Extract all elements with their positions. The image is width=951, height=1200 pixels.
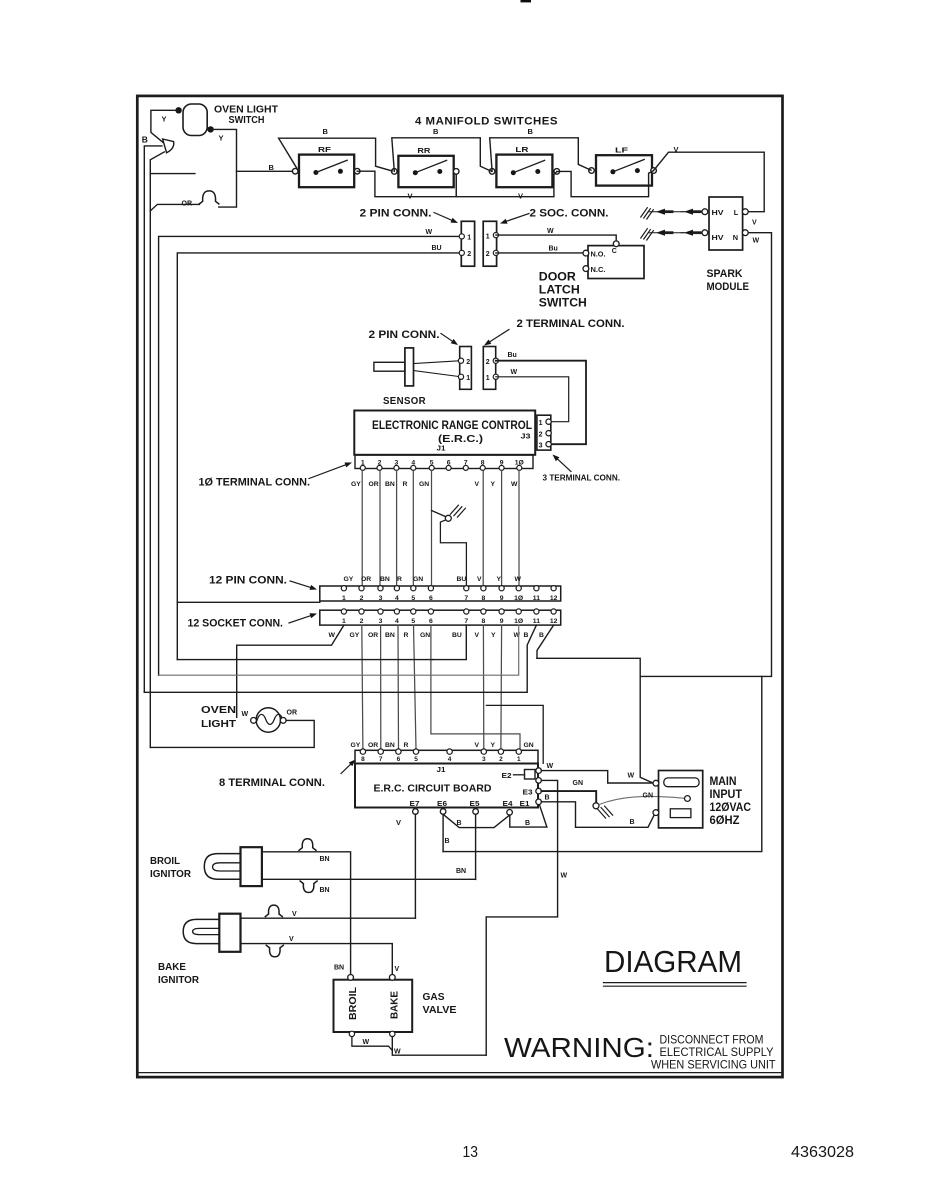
svg-text:1: 1 — [342, 618, 346, 625]
svg-text:8: 8 — [361, 756, 365, 763]
svg-text:9: 9 — [500, 618, 504, 625]
spark electrodes lower — [641, 229, 703, 240]
wire B socket-12 down — [486, 625, 553, 763]
wire BN socket to 8-term — [397, 625, 400, 749]
svg-text:BU: BU — [457, 576, 467, 583]
svg-text:V: V — [396, 818, 401, 827]
svg-text:E5: E5 — [470, 801, 480, 808]
svg-text:W: W — [426, 229, 433, 236]
warning note — [504, 1032, 776, 1072]
svg-text:W: W — [628, 772, 635, 779]
svg-text:GN: GN — [573, 780, 584, 787]
wire W socket-1 to oven light — [237, 625, 344, 717]
svg-text:R: R — [403, 481, 408, 488]
svg-text:E2: E2 — [502, 773, 512, 780]
svg-text:GN: GN — [413, 576, 423, 583]
svg-text:5: 5 — [414, 756, 418, 763]
svg-text:12 PIN CONN.: 12 PIN CONN. — [209, 575, 287, 587]
wire BU socket-7 jog — [177, 625, 466, 660]
svg-text:LIGHT: LIGHT — [201, 718, 237, 730]
wire color labels row1 — [351, 481, 518, 488]
svg-text:B: B — [457, 820, 462, 827]
wire R J1 to 12-pin — [412, 470, 414, 588]
oven light switch — [162, 104, 279, 143]
svg-text:Y: Y — [219, 134, 224, 143]
svg-text:6: 6 — [397, 756, 401, 763]
svg-text:1: 1 — [467, 235, 471, 242]
svg-text:5: 5 — [411, 595, 415, 602]
label 2 PIN CONN (sensor) — [369, 329, 459, 345]
svg-text:W: W — [547, 763, 554, 770]
board right-edge terminals — [503, 778, 542, 808]
svg-text:5: 5 — [411, 618, 415, 625]
svg-text:ELECTRONIC RANGE CONTROL: ELECTRONIC RANGE CONTROL — [372, 420, 532, 432]
svg-text:GY: GY — [350, 632, 360, 639]
svg-text:2: 2 — [486, 359, 490, 366]
svg-text:13: 13 — [463, 1144, 479, 1161]
svg-text:Y: Y — [162, 115, 167, 124]
wire color labels row3 — [329, 632, 545, 639]
svg-text:B: B — [630, 819, 635, 826]
svg-text:V: V — [408, 191, 413, 200]
connector 12 SOCKET CONN — [320, 609, 561, 625]
wire W spark N down right side — [640, 220, 771, 784]
wire W 2-term to J3-1 — [496, 369, 569, 422]
svg-text:V: V — [475, 632, 480, 639]
wire W to 2-pin-conn pin1 — [159, 229, 462, 675]
wire OR J1 to 12-pin — [379, 470, 381, 588]
wire GY J1 to 12-pin — [361, 470, 363, 588]
svg-text:W: W — [561, 873, 568, 880]
svg-text:7: 7 — [379, 756, 383, 763]
boot broil top — [299, 839, 316, 851]
svg-text:2: 2 — [467, 251, 471, 258]
svg-text:OVEN LIGHT: OVEN LIGHT — [214, 104, 278, 115]
wire V link RR-LR — [456, 172, 557, 201]
svg-text:E.R.C. CIRCUIT BOARD: E.R.C. CIRCUIT BOARD — [374, 782, 492, 794]
svg-text:GY: GY — [351, 481, 361, 488]
wire Y J1 to 12-pin — [501, 470, 503, 588]
wire V LF to spark module L — [654, 145, 765, 212]
svg-text:W: W — [329, 632, 336, 639]
svg-text:6: 6 — [429, 595, 433, 602]
svg-text:1: 1 — [486, 233, 490, 240]
svg-text:W: W — [515, 576, 522, 583]
label 2 TERMINAL CONN — [484, 318, 625, 346]
oven light lamp — [201, 704, 297, 732]
svg-text:Y: Y — [497, 576, 502, 583]
connector 2 terminal — [483, 347, 498, 390]
svg-text:HV: HV — [712, 233, 724, 242]
svg-text:Y: Y — [491, 742, 496, 749]
main input terminal block — [628, 771, 752, 828]
svg-text:1: 1 — [517, 756, 521, 763]
svg-text:B: B — [323, 127, 329, 136]
wire Bu soc-conn to door latch N.O. — [496, 246, 583, 253]
svg-text:12 SOCKET CONN.: 12 SOCKET CONN. — [188, 617, 284, 629]
wire OR lamp right loop — [150, 720, 314, 747]
svg-text:12: 12 — [550, 618, 558, 625]
svg-text:C: C — [612, 248, 617, 255]
svg-text:V: V — [674, 145, 679, 154]
svg-text:W: W — [363, 1039, 370, 1046]
svg-text:B: B — [528, 127, 534, 136]
svg-text:W: W — [547, 228, 554, 235]
svg-text:B: B — [539, 632, 544, 639]
svg-text:B: B — [433, 127, 439, 136]
svg-text:3: 3 — [482, 756, 486, 763]
page number — [463, 1144, 479, 1161]
title DIAGRAM — [604, 944, 747, 986]
wire B right side down to h852 — [443, 676, 762, 851]
svg-text:GY: GY — [344, 576, 354, 583]
wire GY socket to 8-term — [362, 625, 363, 749]
svg-text:2 SOC. CONN.: 2 SOC. CONN. — [530, 207, 609, 219]
svg-text:R: R — [404, 632, 409, 639]
svg-text:V: V — [518, 191, 523, 200]
svg-text:B: B — [269, 163, 275, 172]
svg-text:B: B — [524, 632, 529, 639]
svg-text:8 TERMINAL CONN.: 8 TERMINAL CONN. — [219, 777, 325, 789]
svg-text:1: 1 — [342, 595, 346, 602]
wire V bake bottom to gas valve — [241, 936, 393, 977]
svg-text:BAKE: BAKE — [389, 991, 401, 1019]
indicator lamp B — [142, 135, 174, 153]
svg-text:6ØHZ: 6ØHZ — [710, 813, 740, 827]
wire GN socket to 8-term pin8 — [431, 625, 520, 749]
svg-text:BN: BN — [320, 887, 330, 894]
svg-text:DOOR: DOOR — [539, 272, 577, 284]
svg-text:3: 3 — [539, 443, 543, 450]
svg-text:SWITCH: SWITCH — [539, 298, 587, 310]
connector 2 SOC CONN — [483, 207, 608, 266]
svg-text:E4: E4 — [503, 801, 513, 808]
wire B right h658 — [537, 658, 640, 676]
wire stub 12-pin left — [177, 601, 319, 603]
svg-text:MODULE: MODULE — [707, 281, 750, 293]
svg-text:GN: GN — [419, 481, 429, 488]
svg-text:V: V — [292, 911, 297, 918]
svg-text:J1: J1 — [437, 767, 446, 774]
svg-text:1: 1 — [486, 375, 490, 382]
switch RR — [392, 146, 460, 187]
door latch switch — [539, 241, 644, 310]
svg-text:4: 4 — [448, 756, 452, 763]
svg-text:3: 3 — [379, 618, 383, 625]
svg-text:7: 7 — [464, 595, 468, 602]
svg-text:R: R — [397, 576, 402, 583]
svg-text:Y: Y — [491, 481, 496, 488]
svg-text:3: 3 — [379, 595, 383, 602]
svg-text:BN: BN — [385, 742, 395, 749]
svg-text:J3: J3 — [521, 432, 531, 441]
label 4 manifold switches — [415, 116, 558, 128]
wire BU to 2-pin-conn pin2 — [177, 245, 462, 659]
svg-text:VALVE: VALVE — [423, 1004, 457, 1016]
svg-text:BN: BN — [456, 868, 466, 875]
svg-text:R: R — [404, 742, 409, 749]
svg-text:RF: RF — [318, 145, 332, 154]
wire Y socket to 8-term — [500, 625, 503, 749]
svg-text:1Ø: 1Ø — [514, 595, 523, 602]
svg-text:2: 2 — [466, 359, 470, 366]
boot bake bottom — [266, 945, 283, 957]
wire R socket to 8-term — [414, 625, 417, 749]
terminal E2 — [502, 768, 542, 780]
sensor probe — [374, 348, 461, 407]
svg-text:GN: GN — [420, 632, 430, 639]
svg-text:3 TERMINAL CONN.: 3 TERMINAL CONN. — [543, 472, 621, 482]
svg-text:4 MANIFOLD SWITCHES: 4 MANIFOLD SWITCHES — [415, 116, 558, 128]
wire V E7 down to bake igniter — [396, 814, 415, 918]
svg-text:WARNING:: WARNING: — [504, 1032, 654, 1063]
connector 8 TERMINAL CONN — [355, 749, 538, 764]
label 12 socket conn — [188, 613, 318, 629]
svg-text:2 TERMINAL CONN.: 2 TERMINAL CONN. — [517, 318, 625, 330]
doc number — [791, 1144, 854, 1161]
svg-text:OVEN: OVEN — [201, 704, 236, 716]
svg-text:INPUT: INPUT — [710, 787, 743, 801]
label 3 terminal conn — [543, 455, 621, 483]
svg-text:BU: BU — [432, 245, 442, 252]
wire BN broil bottom — [262, 868, 476, 894]
svg-text:BN: BN — [385, 481, 395, 488]
wire Bu 2-term to J3-3 — [496, 352, 586, 444]
svg-text:9: 9 — [500, 595, 504, 602]
svg-text:BROIL: BROIL — [150, 855, 181, 867]
svg-text:OR: OR — [287, 709, 298, 716]
svg-text:OR: OR — [182, 200, 193, 207]
svg-text:B: B — [525, 820, 530, 827]
svg-text:6: 6 — [429, 618, 433, 625]
svg-text:1Ø: 1Ø — [514, 618, 523, 625]
svg-text:J1: J1 — [437, 446, 446, 453]
svg-text:8: 8 — [482, 595, 486, 602]
wire V J1 to 12-pin — [482, 470, 484, 588]
svg-text:HV: HV — [712, 208, 724, 217]
wire BU 12-pin-7 up to ground — [440, 520, 466, 588]
svg-text:N.O.: N.O. — [591, 252, 606, 259]
wire GN E3 to chassis ground — [541, 780, 684, 818]
svg-text:12ØVAC: 12ØVAC — [710, 800, 752, 814]
wire B left vertical (v144) — [144, 146, 162, 692]
svg-text:N: N — [733, 233, 738, 242]
svg-text:W: W — [511, 481, 518, 488]
svg-text:2: 2 — [499, 756, 503, 763]
wire W gas valve returns — [352, 1037, 486, 1056]
wire B hop RF-RR — [279, 127, 393, 171]
svg-text:BU: BU — [452, 632, 462, 639]
svg-text:2: 2 — [360, 595, 364, 602]
wire V bake top to E7 — [241, 911, 416, 918]
wire B E6 down — [443, 814, 449, 851]
wire B hop RR-LR — [392, 127, 491, 172]
label 12 pin conn — [209, 575, 317, 590]
svg-text:1: 1 — [539, 420, 543, 427]
bake ignitor — [158, 914, 241, 986]
gas valve — [334, 965, 457, 1037]
wire GN J1 to 12-pin — [431, 470, 433, 588]
svg-text:GN: GN — [643, 792, 654, 799]
wire B main line to RF — [237, 163, 296, 172]
svg-text:V: V — [475, 481, 480, 488]
electronic range control U2 — [354, 411, 535, 455]
connector 12 PIN CONN — [320, 586, 561, 602]
svg-text:B: B — [545, 794, 550, 801]
svg-text:LR: LR — [515, 145, 529, 154]
svg-text:V: V — [395, 966, 400, 973]
switch LR — [489, 145, 559, 187]
svg-text:11: 11 — [533, 618, 540, 625]
svg-text:BN: BN — [334, 965, 344, 972]
wire BN J1 to 12-pin — [396, 470, 398, 588]
svg-text:E1: E1 — [520, 801, 530, 808]
wire W J1 to 12-pin — [518, 470, 520, 588]
svg-text:N.C.: N.C. — [591, 267, 606, 274]
wire E5 down to broil igniter — [475, 814, 477, 879]
svg-text:GAS: GAS — [423, 991, 445, 1003]
wire OR lamp to bell loop (v151) — [150, 152, 195, 748]
svg-text:4363028: 4363028 — [791, 1144, 854, 1161]
svg-text:E3: E3 — [523, 789, 533, 796]
boot bake top — [265, 905, 282, 917]
svg-text:OR: OR — [361, 576, 371, 583]
connector 2 PIN CONN (door) — [360, 207, 475, 266]
wire W board to gas valve loop — [486, 780, 567, 1055]
svg-text:W: W — [753, 237, 760, 244]
svg-text:Y: Y — [491, 632, 496, 639]
svg-text:DIAGRAM: DIAGRAM — [604, 944, 742, 979]
wire W soc-conn to door latch C — [496, 228, 616, 241]
svg-text:W: W — [511, 369, 518, 376]
svg-text:W: W — [242, 711, 249, 718]
wire Y oven-light-switch to lamp — [151, 110, 179, 142]
wire B hop LR-LF — [490, 127, 591, 172]
svg-text:2 PIN CONN.: 2 PIN CONN. — [360, 207, 432, 219]
svg-text:LATCH: LATCH — [539, 285, 580, 297]
svg-text:MAIN: MAIN — [710, 774, 737, 788]
wire color labels row2 — [344, 576, 522, 583]
wire color labels row4 — [351, 742, 534, 749]
svg-text:RR: RR — [417, 146, 431, 155]
wire OR socket to 8-term — [380, 625, 382, 749]
wire B jumper E6-E4 — [443, 814, 510, 827]
svg-text:1: 1 — [466, 375, 470, 382]
chassis ground on GN — [432, 505, 466, 521]
svg-text:11: 11 — [533, 595, 540, 602]
svg-text:B: B — [445, 838, 450, 845]
svg-text:V: V — [477, 576, 482, 583]
svg-text:BAKE: BAKE — [158, 961, 186, 973]
svg-text:1Ø TERMINAL CONN.: 1Ø TERMINAL CONN. — [199, 476, 311, 488]
svg-text:2 PIN CONN.: 2 PIN CONN. — [369, 329, 440, 341]
connector 2 pin (sensor) — [458, 347, 471, 390]
wire B E1 to main input — [541, 794, 654, 827]
svg-text:2: 2 — [539, 432, 543, 439]
connector J3 — [521, 415, 552, 450]
svg-text:V: V — [289, 936, 294, 943]
boot broil bottom — [300, 881, 317, 893]
svg-text:Bu: Bu — [508, 352, 517, 359]
svg-text:BN: BN — [385, 632, 395, 639]
svg-text:WHEN SERVICING UNIT: WHEN SERVICING UNIT — [651, 1058, 776, 1072]
svg-text:B: B — [142, 135, 148, 145]
svg-text:LF: LF — [615, 145, 629, 154]
wire V socket to 8-term — [482, 625, 484, 749]
svg-text:IGNITOR: IGNITOR — [150, 868, 191, 880]
svg-text:W: W — [394, 1049, 401, 1056]
svg-text:SENSOR: SENSOR — [383, 395, 426, 407]
wire W E2 to main input — [541, 763, 653, 783]
wire W socket-10 to left loop — [159, 625, 519, 675]
spark electrodes upper — [641, 208, 703, 219]
svg-text:Bu: Bu — [549, 246, 558, 253]
svg-text:2: 2 — [486, 251, 490, 258]
switch RF — [292, 145, 360, 187]
spark module U1 — [702, 197, 749, 293]
svg-text:OR: OR — [368, 742, 378, 749]
border frame — [137, 0, 783, 1077]
switch LF — [589, 145, 657, 185]
svg-text:L: L — [734, 208, 739, 217]
svg-text:2: 2 — [360, 618, 364, 625]
svg-text:V: V — [475, 742, 480, 749]
wire Y switch to bell — [211, 129, 237, 207]
wire B socket-11 to left loop — [144, 625, 536, 692]
svg-text:12: 12 — [550, 595, 558, 602]
buzzer/bell OR — [150, 191, 219, 211]
svg-text:BROIL: BROIL — [347, 986, 359, 1020]
connector 10 terminal (J1 strip) — [355, 455, 533, 470]
svg-text:OR: OR — [368, 632, 378, 639]
svg-text:SPARK: SPARK — [707, 268, 743, 280]
broil ignitor — [150, 847, 262, 886]
svg-text:BN: BN — [320, 856, 330, 863]
ERC circuit board U3 — [355, 764, 538, 808]
wire BN broil top to gas valve — [262, 852, 351, 978]
svg-text:8: 8 — [482, 618, 486, 625]
svg-text:W: W — [514, 632, 521, 639]
label 10 terminal conn — [199, 463, 353, 489]
svg-text:SWITCH: SWITCH — [229, 115, 265, 126]
svg-text:E7: E7 — [410, 801, 420, 808]
wire V link RF-RR — [357, 171, 456, 200]
wire B jumper E4-E1 — [510, 805, 547, 827]
svg-text:BN: BN — [380, 576, 390, 583]
svg-text:GN: GN — [524, 742, 534, 749]
svg-text:4: 4 — [395, 618, 399, 625]
svg-text:E6: E6 — [437, 801, 447, 808]
wire V link LR-LF — [557, 171, 653, 197]
svg-text:7: 7 — [464, 618, 468, 625]
label 8 terminal conn — [219, 760, 356, 789]
svg-text:(E.R.C.): (E.R.C.) — [438, 433, 483, 445]
svg-text:GY: GY — [351, 742, 361, 749]
svg-text:OR: OR — [369, 481, 379, 488]
svg-text:IGNITOR: IGNITOR — [158, 974, 199, 986]
board bottom terminals E7 E6 E5 E4 — [410, 801, 513, 815]
svg-text:4: 4 — [395, 595, 399, 602]
svg-text:V: V — [752, 220, 757, 227]
